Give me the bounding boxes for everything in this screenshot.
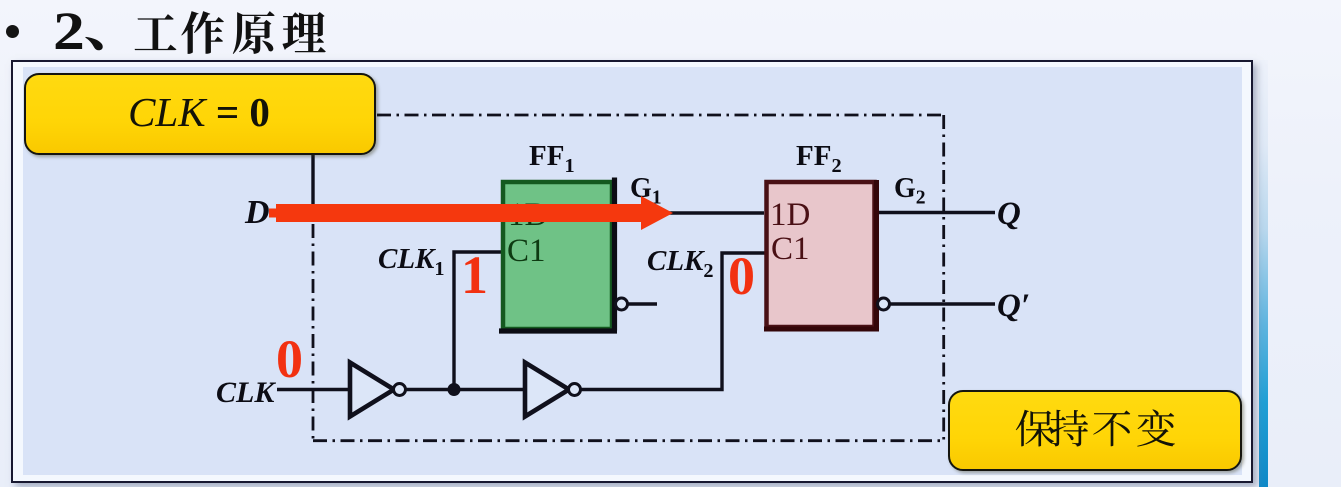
wire FF1 inverted output stub — [627, 302, 657, 305]
flip-flop FF1 body — [503, 182, 612, 329]
title number 2 — [53, 0, 85, 62]
wire CLK input to inverter G3 — [277, 388, 350, 391]
label G1 — [630, 173, 662, 205]
callout char 变 — [1137, 409, 1175, 446]
flip-flop FF2 body — [767, 182, 875, 327]
title ideographic comma — [85, 37, 103, 50]
wire CLK1 net from junction up to FF1 C1 pin — [454, 252, 502, 390]
dash-dot enclosure right side — [942, 115, 945, 441]
callout box CLK = 0 — [24, 73, 376, 155]
callout char 持 — [1050, 410, 1088, 447]
label Q-prime — [997, 288, 1030, 325]
label G2 — [894, 173, 926, 205]
callout char 保 — [1016, 410, 1054, 447]
callout char 不 — [1093, 411, 1130, 447]
flip-flop FF1 inverted output bubble — [616, 298, 628, 310]
FF1 pin C1 — [507, 233, 546, 270]
label CLK2 — [647, 245, 714, 278]
label CLK — [216, 376, 274, 410]
wire from CLK=0 callout down to D line — [311, 155, 314, 211]
red value 0 at CLK — [276, 328, 303, 390]
wire FF2 inverted output to Q' — [889, 302, 995, 305]
inverter G3 output bubble — [394, 384, 406, 396]
title char 理 — [282, 12, 325, 52]
FF1 pin 1D — [508, 197, 548, 234]
dash-dot enclosure left side — [312, 224, 315, 441]
junction dot on CLK1 net — [448, 383, 461, 396]
dash-dot enclosure bottom side — [313, 439, 944, 442]
inverter G4 output bubble — [569, 384, 581, 396]
red value 1 at CLK1 — [461, 244, 488, 306]
label D — [245, 194, 270, 232]
flip-flop FF2 inverted output bubble — [878, 298, 890, 310]
label FF1 — [529, 140, 575, 173]
title char 作 — [181, 11, 224, 54]
inverter G3 triangle — [350, 363, 394, 417]
title bullet — [6, 25, 19, 38]
FF2 pin C1 — [771, 231, 810, 268]
wire net D input through FF1 to FF2 1D pin (G1 net) — [277, 211, 764, 214]
wire inverter G4 output to FF2 C1 pin (CLK2 net) — [580, 253, 765, 390]
FF2 pin 1D — [770, 197, 810, 234]
label Q — [997, 196, 1021, 233]
dash-dot enclosure top side — [377, 114, 944, 117]
inverter G4 triangle — [525, 363, 569, 417]
callout CLK = 0 text — [24, 88, 374, 136]
flip-flop FF1 black right and bottom border — [499, 178, 617, 332]
title char 原 — [233, 11, 275, 54]
flip-flop FF2 darker right and bottom border — [764, 180, 879, 329]
callout box hold-unchanged — [948, 390, 1242, 471]
wire inverter G3 output to inverter G4 — [405, 388, 525, 391]
slide edge teal strip — [1259, 60, 1268, 487]
label FF2 — [796, 140, 842, 173]
red value 0 at CLK2 — [728, 245, 755, 307]
label CLK1 — [378, 243, 445, 276]
title char 工 — [135, 14, 177, 50]
wire FF2 G2 output to Q — [877, 211, 995, 214]
panel inner blue fill — [23, 67, 1242, 475]
